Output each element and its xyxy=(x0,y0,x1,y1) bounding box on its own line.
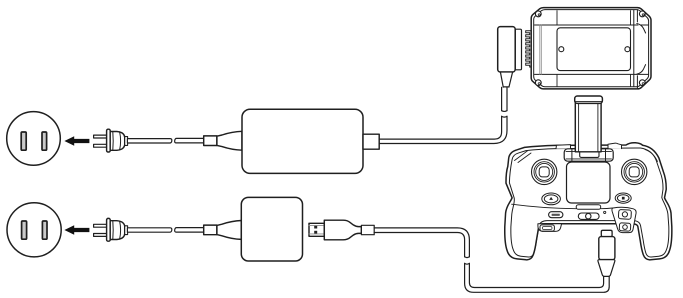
cable ferrite boot B xyxy=(204,225,217,235)
outlet B slot right xyxy=(42,221,47,239)
USB-A collar xyxy=(361,225,374,234)
battery contact comb teeth xyxy=(526,31,532,67)
charging cable: USB-A to USB-C (right, down with break, right, up) xyxy=(374,228,609,292)
right joystick xyxy=(622,159,647,184)
remote controller body xyxy=(505,143,672,260)
power outlet B (bottom-left) xyxy=(7,203,61,257)
plug B (two-prong) xyxy=(94,218,128,241)
battery right rail details xyxy=(637,24,646,34)
USB charger block xyxy=(241,197,302,261)
USB-A contact holes xyxy=(314,226,317,229)
strain relief cone B xyxy=(217,221,241,240)
cable ferrite boot A xyxy=(204,136,217,146)
left grip foot xyxy=(538,224,562,232)
clamp lower jaw xyxy=(580,146,599,158)
power outlet A (top-left) xyxy=(7,112,61,166)
right power button xyxy=(615,193,631,203)
CINE switch xyxy=(549,212,563,218)
plug A (two-prong) xyxy=(94,129,128,152)
remote screen xyxy=(567,162,611,203)
left bottom vent xyxy=(540,225,554,231)
cable: plug B to USB charger (with break) xyxy=(127,228,203,233)
center pill with record button xyxy=(578,213,599,219)
outlet A slot left xyxy=(21,132,26,150)
battery screw BR xyxy=(639,80,645,86)
remote inner panel outline xyxy=(509,148,668,257)
output cable: adapter to charging plug (right then up, with break) xyxy=(379,87,507,143)
right shoulder frame xyxy=(612,207,636,232)
battery screw BL xyxy=(535,80,541,86)
small indicator dot xyxy=(604,211,606,213)
outlet B slot left xyxy=(22,221,27,239)
AC power adapter body xyxy=(242,109,363,173)
clamp top cap xyxy=(575,96,603,103)
right button 2 xyxy=(619,223,631,231)
outlet A slot right xyxy=(42,132,47,150)
phone clamp bracket xyxy=(564,149,613,161)
battery recess xyxy=(557,28,631,71)
battery screw TL xyxy=(535,11,541,17)
right button 1 xyxy=(618,209,631,219)
left joystick xyxy=(532,159,557,184)
arrow B xyxy=(64,225,89,234)
battery screw TR xyxy=(639,11,645,17)
mid contour line xyxy=(512,204,613,209)
arrow A (points left to outlet) xyxy=(64,136,89,145)
adapter output connector xyxy=(363,134,379,149)
USB-C plug (into remote) xyxy=(601,230,612,236)
battery latch holes xyxy=(559,47,564,52)
strain relief cone A xyxy=(217,131,242,150)
battery charging plug xyxy=(515,29,521,70)
USB-A connector body xyxy=(324,220,361,240)
intelligent flight battery (top view) xyxy=(531,8,651,89)
clamp hinge tabs on body top xyxy=(556,145,571,149)
left flight-mode button xyxy=(542,193,561,205)
corner contour lines xyxy=(515,151,532,163)
clamp column (folded phone holder) xyxy=(575,103,601,152)
battery frame lines xyxy=(535,24,649,26)
cable: plug A to adapter (with break) xyxy=(127,138,203,143)
speaker slot below screen xyxy=(576,205,601,210)
USB-A connector metal tip xyxy=(309,223,324,236)
